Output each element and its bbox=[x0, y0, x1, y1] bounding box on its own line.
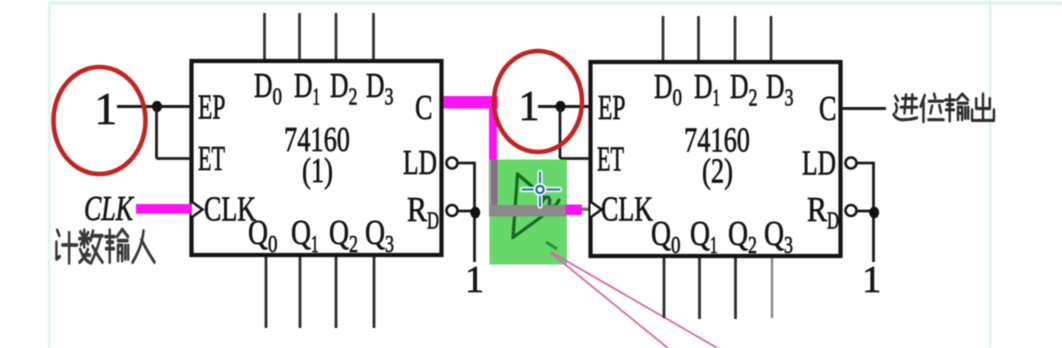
wire: U1 LD loop bbox=[458, 163, 475, 262]
wire: EP-ET tie vertical U1 bbox=[155, 107, 158, 159]
wire: to U2 ET bbox=[560, 157, 590, 160]
wire: U1 D3 top pin bbox=[372, 13, 375, 60]
node: junction dot U1 LD/RD bbox=[470, 207, 480, 219]
char 位 bbox=[921, 94, 944, 122]
wire: U2 Q3 bottom pin bbox=[771, 257, 774, 318]
annotation: dark green buffer scribble bbox=[513, 174, 559, 238]
wire: U2 D1 top pin bbox=[697, 16, 700, 61]
wire: U1 Q3 bottom pin bbox=[373, 256, 376, 328]
cursor: move crosshair bbox=[523, 173, 560, 207]
svg-text:Q: Q bbox=[248, 213, 268, 252]
char 数 bbox=[79, 230, 102, 263]
svg-text:3: 3 bbox=[785, 86, 794, 112]
label 进位输出 (carry output) bbox=[894, 94, 994, 122]
clock wedge U1 bbox=[192, 202, 203, 218]
svg-text:2: 2 bbox=[349, 232, 358, 258]
wire: U2 D0 top pin bbox=[662, 16, 665, 61]
svg-text:D: D bbox=[694, 67, 713, 106]
wire: 1 to U2 EP bbox=[538, 105, 590, 108]
svg-text:D: D bbox=[366, 66, 385, 105]
svg-text:Q: Q bbox=[764, 214, 784, 253]
annotation: magenta seen through green bbox=[491, 160, 498, 206]
wire: U2 LD loop bbox=[857, 163, 874, 262]
label 计数输入 (count input) bbox=[56, 229, 154, 263]
svg-text:D: D bbox=[730, 67, 749, 106]
wire: to U1 ET bbox=[157, 157, 192, 160]
svg-text:ET: ET bbox=[597, 140, 624, 179]
annotation: thick gray wire stroke bbox=[489, 205, 567, 217]
svg-text:0: 0 bbox=[268, 232, 278, 258]
svg-text:CLK: CLK bbox=[84, 189, 134, 228]
annotation: red ellipse 1 bbox=[54, 67, 146, 174]
wire: U2 Q2 bottom pin bbox=[734, 257, 737, 319]
node: junction dot U2 LD/RD bbox=[869, 207, 879, 219]
wire: magenta CLK input to U1 bbox=[136, 204, 192, 214]
svg-text:C: C bbox=[819, 89, 837, 128]
svg-text:D: D bbox=[294, 66, 313, 105]
svg-text:Q: Q bbox=[329, 213, 349, 252]
clock wedge U2 bbox=[591, 202, 602, 218]
svg-text:C: C bbox=[415, 88, 433, 127]
svg-text:1: 1 bbox=[519, 84, 540, 130]
svg-text:D: D bbox=[654, 67, 673, 106]
svg-text:Q: Q bbox=[365, 213, 385, 252]
svg-text:EP: EP bbox=[198, 88, 226, 127]
svg-text:3: 3 bbox=[385, 232, 394, 258]
op body: counter U2 box bbox=[591, 62, 841, 256]
bubble U1 RD bbox=[447, 205, 458, 216]
svg-text:2: 2 bbox=[748, 233, 757, 259]
node: junction dot EP net U1 bbox=[152, 101, 162, 112]
wire: U1 Q0 bottom pin bbox=[265, 256, 268, 328]
svg-text:1: 1 bbox=[313, 85, 321, 111]
svg-text:1: 1 bbox=[95, 84, 118, 134]
wire: 1 to U1 EP bbox=[117, 105, 191, 108]
char 输 bbox=[105, 229, 128, 262]
wire: U1 RD stub bbox=[458, 210, 472, 213]
svg-text:(1): (1) bbox=[302, 151, 333, 190]
wire: U2 Q0 bottom pin bbox=[663, 257, 666, 318]
svg-text:R: R bbox=[407, 190, 428, 229]
annotation: red ellipse 2 bbox=[494, 51, 582, 152]
annotation: green highlight box bbox=[490, 160, 568, 265]
svg-text:0: 0 bbox=[673, 86, 683, 112]
faint top border line bbox=[48, 2, 1062, 5]
svg-text:1: 1 bbox=[311, 232, 319, 258]
wire: U2 Q1 bottom pin bbox=[698, 257, 701, 319]
svg-text:1: 1 bbox=[862, 259, 881, 301]
svg-text:LD: LD bbox=[802, 144, 836, 183]
svg-text:2: 2 bbox=[749, 86, 758, 112]
svg-text:Q: Q bbox=[728, 214, 748, 253]
svg-text:1: 1 bbox=[710, 233, 718, 259]
wire: U1 D2 top pin bbox=[335, 13, 338, 60]
op body: counter U1 box bbox=[192, 61, 442, 255]
svg-text:D: D bbox=[254, 66, 273, 105]
wire: magenta U1 C output horizontal bbox=[444, 96, 499, 109]
svg-text:0: 0 bbox=[273, 85, 283, 111]
svg-text:EP: EP bbox=[598, 88, 626, 127]
wire: U1 D0 top pin bbox=[263, 13, 266, 60]
svg-text:D: D bbox=[427, 209, 439, 235]
svg-text:3: 3 bbox=[385, 85, 394, 111]
svg-text:3: 3 bbox=[784, 233, 793, 259]
annotation: pink callout line lower bbox=[551, 253, 669, 348]
wire: U2 RD stub bbox=[857, 210, 871, 213]
svg-text:2: 2 bbox=[349, 85, 358, 111]
char 入 bbox=[133, 231, 155, 262]
svg-text:Q: Q bbox=[690, 214, 710, 253]
wire: thin gray stub into U2 CLK bbox=[566, 208, 590, 212]
faint left border line bbox=[48, 2, 51, 348]
svg-text:ET: ET bbox=[198, 139, 225, 178]
wire: U1 Q1 bottom pin bbox=[299, 256, 302, 328]
char 进 bbox=[894, 95, 917, 120]
wire: U2 D3 top pin bbox=[770, 16, 773, 61]
svg-text:D: D bbox=[827, 209, 839, 235]
wire: U1 D1 top pin bbox=[298, 13, 301, 60]
svg-text:0: 0 bbox=[671, 233, 681, 259]
svg-text:D: D bbox=[766, 67, 785, 106]
svg-text:R: R bbox=[807, 190, 828, 229]
svg-text:Q: Q bbox=[291, 213, 311, 252]
wire: U2 C carry output bbox=[841, 107, 886, 110]
char 输 bbox=[945, 94, 968, 121]
wire: EP-ET tie vertical U2 bbox=[559, 107, 562, 159]
node: junction dot EP net U2 bbox=[556, 101, 566, 112]
svg-text:(2): (2) bbox=[702, 152, 733, 191]
wire: U2 D2 top pin bbox=[734, 16, 737, 61]
annotation: pink callout line upper bbox=[551, 252, 719, 348]
wire: magenta segment before U2 CLK bbox=[566, 205, 583, 216]
char 出 bbox=[972, 94, 994, 120]
bubble U2 LD bbox=[846, 158, 857, 169]
svg-text:LD: LD bbox=[403, 143, 437, 182]
char 计 bbox=[56, 230, 77, 263]
wire: U1 Q2 bottom pin bbox=[335, 256, 338, 328]
bubble U2 RD bbox=[846, 205, 857, 216]
bubble U1 LD bbox=[447, 158, 458, 169]
svg-text:Q: Q bbox=[651, 214, 671, 253]
svg-text:1: 1 bbox=[713, 86, 721, 112]
wire: magenta vertical drop to U2 CLK bbox=[489, 96, 497, 208]
annotation: small dark green tick bbox=[546, 242, 557, 249]
faint right border line bbox=[989, 0, 991, 348]
svg-text:1: 1 bbox=[465, 259, 484, 301]
svg-text:D: D bbox=[330, 66, 349, 105]
svg-text:CLK: CLK bbox=[601, 190, 653, 229]
